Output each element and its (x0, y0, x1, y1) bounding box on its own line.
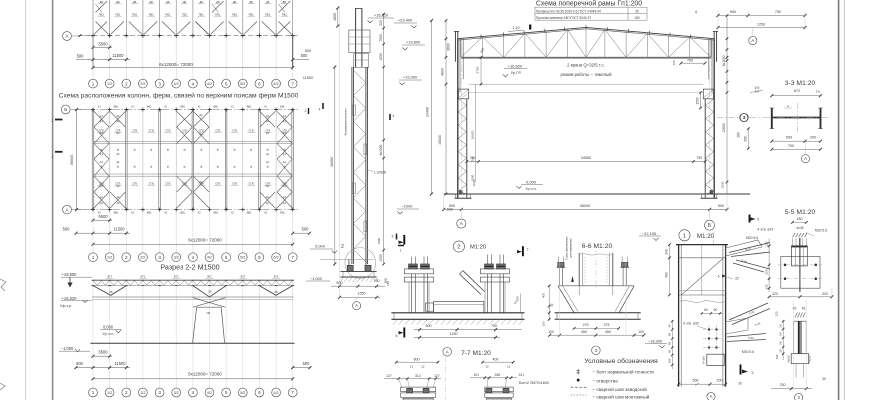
svg-text:220: 220 (764, 269, 768, 274)
fachwerk column upper shaft (356, 8, 362, 67)
svg-text:ДБ: ДБ (266, 0, 270, 4)
svg-text:К2: К2 (231, 212, 234, 215)
detail 6-6 base plate (555, 313, 641, 320)
truss top chord panel ticks (481, 25, 691, 38)
svg-text:500: 500 (305, 48, 312, 53)
detail 5-5 left dim chain 120 220 120 (764, 238, 770, 292)
svg-text:Ур.ч.п.: Ур.ч.п. (102, 332, 113, 336)
svg-text:ф: ф (200, 165, 203, 169)
fachwerk base anchor bolts (347, 259, 371, 271)
plan1 axis circle A (63, 32, 90, 41)
frame right column lattice (705, 99, 714, 198)
frame axis circle B bottom right (705, 209, 715, 230)
frame spec table (535, 7, 647, 20)
fachwerk left labels 500 and 11500 (303, 48, 314, 80)
svg-text:1000: 1000 (472, 179, 476, 186)
svg-text:60: 60 (704, 308, 708, 312)
svg-text:750: 750 (373, 279, 379, 283)
svg-text:Разрез 2-2 М1500: Разрез 2-2 М1500 (160, 263, 219, 272)
svg-text:М30 5.6: М30 5.6 (815, 228, 827, 232)
svg-text:−18,300: −18,300 (648, 338, 663, 343)
svg-text:1/2: 1/2 (107, 391, 112, 395)
svg-text:ф1: ф1 (283, 202, 287, 205)
frame dim 1000 left base (472, 179, 476, 186)
svg-text:− болт нормальной точности: − болт нормальной точности (592, 369, 654, 375)
svg-text:120: 120 (775, 311, 779, 316)
svg-text:ФВ1: ФВ1 (147, 212, 152, 215)
svg-text:ф1: ф1 (116, 153, 120, 156)
svg-text:ФТ2: ФТ2 (107, 276, 112, 279)
svg-text:ФВ1: ФВ1 (147, 106, 152, 109)
fachwerk base callout circle 2 (341, 244, 376, 278)
svg-text:ОБ: ОБ (274, 291, 278, 294)
svg-text:ФВ1: ФВ1 (213, 212, 218, 215)
svg-text:5: 5 (225, 255, 228, 260)
detail 3-3 axis circle A bottom (801, 141, 809, 163)
dim 280 right of frame (736, 132, 740, 138)
plan2 axis number circles row (89, 253, 298, 262)
svg-text:ф: ф (217, 165, 220, 169)
svg-text:1/2: 1/2 (107, 82, 112, 86)
svg-text:6: 6 (396, 334, 398, 338)
svg-text:ф: ф (100, 148, 103, 152)
svg-text:3: 3 (158, 255, 161, 260)
svg-text:СГВ: СГВ (215, 130, 220, 133)
detail 1 level -22.105 (639, 231, 661, 241)
svg-text:500: 500 (718, 204, 724, 208)
plan2 top axis K labels (98, 106, 286, 215)
svg-text:+15,000: +15,000 (403, 75, 418, 80)
ridge section flag (529, 25, 531, 30)
svg-text:δ=160: δ=160 (702, 356, 706, 364)
svg-text:24400: 24400 (425, 107, 429, 117)
plan1 axis number circles row (89, 79, 298, 88)
svg-text:12: 12 (421, 364, 425, 368)
svg-text:40: 40 (668, 350, 672, 354)
detail 2 section flag 6 bottom left (396, 327, 405, 338)
svg-text:ДБ: ДБ (216, 0, 220, 4)
svg-text:К1: К1 (231, 106, 234, 109)
svg-text:6: 6 (718, 275, 720, 279)
svg-text:ОБ: ОБ (208, 291, 212, 294)
detail 5-5 outer plate with bolts (778, 238, 823, 292)
svg-text:150: 150 (386, 281, 390, 286)
svg-text:100: 100 (638, 330, 644, 334)
section2 dimension 6x12000=72000 (92, 372, 295, 381)
svg-text:ф: ф (283, 148, 286, 152)
svg-text:750: 750 (470, 156, 476, 160)
svg-text:+16,620: +16,620 (374, 13, 389, 18)
roof slope mark 1:10 (508, 26, 524, 32)
frame crane level lines (469, 84, 704, 92)
svg-text:ДБ: ДБ (100, 0, 104, 4)
detail 3-3 dim 280 left (744, 127, 750, 149)
svg-text:2: 2 (125, 390, 128, 395)
detail 7-7 left plan dims 12 12 (410, 364, 425, 368)
detail 5-5 labels 180 4x45 M30 (791, 217, 827, 236)
svg-text:ПБ1: ПБ1 (199, 12, 205, 16)
svg-text:ПБ1: ПБ1 (99, 12, 105, 16)
svg-text:ДБ: ДБ (166, 0, 170, 4)
svg-text:СГВ: СГВ (132, 183, 137, 186)
plan1 dimension 6x12000=72000 (92, 53, 310, 69)
svg-text:4 отв. ø23: 4 отв. ø23 (758, 227, 774, 231)
frame axis circle A bottom left (457, 209, 466, 228)
frame column centerlines (461, 40, 709, 194)
plan2 cross marks at axis intersections (91, 108, 295, 212)
sheet border inner thin line right (843, 0, 845, 400)
detail 2 ground hatch under plate (393, 320, 523, 325)
detail 7-7 left plan dims 127 313 127 (384, 374, 441, 388)
svg-text:ОБ: ОБ (109, 291, 113, 294)
svg-text:7-7 М1:20: 7-7 М1:20 (461, 350, 491, 357)
fachwerk base floor line 0.000 (320, 258, 374, 260)
level mark +16,620 at column top (368, 13, 395, 24)
svg-text:7: 7 (291, 255, 294, 260)
detail 1 stiffener plate (702, 354, 725, 365)
svg-text:6х12000= 72000: 6х12000= 72000 (188, 238, 222, 243)
detail 7-7 right plan dims 101 168 101 (470, 373, 524, 388)
svg-text:+23,400: +23,400 (398, 18, 413, 23)
svg-text:4х100: 4х100 (787, 355, 791, 363)
frame eave cap left (454, 32, 459, 62)
svg-text:313: 313 (415, 374, 421, 378)
svg-text:3: 3 (595, 348, 598, 353)
detail 1 lower right braces (726, 303, 770, 354)
detail 5-5 inner plate (791, 246, 807, 266)
svg-text:м: м (787, 104, 789, 108)
svg-text:60: 60 (714, 308, 718, 312)
svg-text:90: 90 (778, 332, 782, 336)
detail 7-7 right plan dims 12 12 (485, 364, 510, 368)
svg-text:1%: 1% (755, 90, 760, 94)
section2 dimension 500 right (291, 361, 311, 369)
svg-text:200: 200 (810, 136, 816, 140)
section2 middle portal legs (193, 307, 225, 343)
fachwerk right dim chain 220 7500 1000 6x3000 1350 (379, 13, 385, 266)
svg-text:100: 100 (541, 321, 545, 326)
svg-text:ф1: ф1 (116, 161, 120, 164)
svg-text:11500: 11500 (112, 53, 124, 58)
svg-text:750: 750 (696, 156, 702, 160)
svg-text:А: А (751, 38, 754, 43)
svg-text:СГВ: СГВ (165, 183, 170, 186)
svg-text:1: 1 (92, 255, 95, 260)
svg-text:7: 7 (291, 390, 294, 395)
plan2 dimension 500 right (291, 227, 311, 235)
svg-text:22: 22 (735, 277, 739, 281)
svg-text:16620: 16620 (471, 130, 475, 139)
svg-text:5500: 5500 (98, 41, 108, 46)
svg-text:5/2: 5/2 (240, 82, 245, 86)
svg-text:СГВ: СГВ (215, 183, 220, 186)
svg-text:3/2: 3/2 (174, 82, 179, 86)
svg-text:ДБ: ДБ (149, 0, 153, 4)
svg-text:1:10: 1:10 (512, 26, 519, 30)
svg-text:ПБ1: ПБ1 (249, 12, 255, 16)
svg-text:450: 450 (605, 330, 611, 334)
svg-text:1350: 1350 (379, 254, 383, 262)
detail 3-3 dims 500 200 (770, 136, 822, 143)
svg-text:ПБ1: ПБ1 (165, 12, 171, 16)
svg-text:5/2: 5/2 (240, 391, 245, 395)
svg-text:ПБ1: ПБ1 (132, 12, 138, 16)
detail lower-right dim chain 20 90 90 20 (775, 320, 785, 360)
svg-text:2: 2 (125, 255, 128, 260)
svg-text:2: 2 (125, 81, 128, 86)
svg-text:700: 700 (687, 58, 693, 62)
level mark +23,400 (394, 18, 417, 29)
svg-text:ф: ф (117, 148, 120, 152)
svg-text:ф1: ф1 (283, 153, 287, 156)
svg-text:200: 200 (717, 379, 723, 383)
svg-text:ФТ2: ФТ2 (174, 276, 179, 279)
svg-text:34500: 34500 (581, 156, 592, 160)
detail 2 diagonal strut (460, 271, 485, 295)
svg-text:К1: К1 (198, 106, 201, 109)
svg-text:90: 90 (778, 341, 782, 345)
svg-text:3600: 3600 (446, 43, 450, 51)
svg-text:6/2: 6/2 (274, 256, 279, 260)
svg-text:К2: К2 (198, 212, 201, 215)
section2 level +19800 (61, 272, 92, 287)
fachwerk column lattice chords (352, 67, 368, 264)
detail 2 section flag 7 right (517, 246, 529, 256)
detail 2 bottom dim 1250 (414, 332, 501, 339)
svg-text:ф: ф (183, 165, 186, 169)
svg-text:5500: 5500 (98, 214, 108, 219)
svg-text:1: 1 (92, 390, 95, 395)
svg-text:1: 1 (683, 233, 686, 239)
detail 2 traverse channel (426, 301, 484, 312)
detail 3-3 axis circle 3 left (740, 113, 830, 121)
svg-text:3: 3 (798, 395, 801, 400)
svg-text:4800: 4800 (440, 68, 444, 76)
svg-text:ДБ: ДБ (116, 0, 120, 4)
level -1.000 at fachwerk base (306, 276, 330, 281)
svg-text:ф: ф (117, 165, 120, 169)
frame level 0.000 Ur.ch.p. (516, 179, 543, 191)
plan1 dimension 5500 (92, 41, 113, 48)
detail 3-3 dim 700 (770, 144, 822, 151)
svg-text:ПБ1: ПБ1 (182, 12, 188, 16)
svg-text:Профнастил НС35-1000-0.6 ГОСТ: Профнастил НС35-1000-0.6 ГОСТ 24045-94 (536, 9, 601, 13)
svg-text:ф1: ф1 (266, 202, 270, 205)
svg-text:1%: 1% (816, 90, 821, 94)
frame interior dim 1500 vertical (696, 91, 702, 109)
detail 1 weld labels 6 22 (718, 275, 739, 281)
svg-text:7: 7 (527, 248, 529, 252)
svg-text:ф1: ф1 (266, 196, 270, 199)
section2 lower chord lines (92, 297, 294, 300)
detail lower-right bottom dims 230 30 (771, 377, 826, 390)
svg-text:ф: ф (267, 165, 270, 169)
svg-text:ф: ф (217, 148, 220, 152)
svg-text:500: 500 (76, 361, 84, 366)
svg-text:6: 6 (396, 236, 398, 240)
svg-text:21: 21 (694, 10, 698, 14)
svg-text:ДБ: ДБ (283, 0, 287, 4)
section2 vertical bracing labels (106, 276, 281, 279)
plan1 dimension 500 and 11500 (76, 53, 130, 61)
detail 6-6 column shaft (579, 250, 613, 290)
svg-text:СГВ: СГВ (132, 130, 137, 133)
svg-text:СГВ: СГВ (232, 130, 237, 133)
svg-text:30: 30 (738, 382, 742, 386)
svg-text:6/2: 6/2 (274, 82, 279, 86)
svg-text:1500: 1500 (696, 97, 700, 104)
svg-text:ПБ1: ПБ1 (265, 12, 271, 16)
truss bottom chord (461, 57, 711, 58)
frame right column upper shaft (709, 39, 714, 198)
detail 1 left dim chain 160 40 90 90 40 (668, 320, 674, 369)
frame left column lattice (458, 99, 467, 198)
plan2 grid verticals (trusses on main axes) (92, 110, 293, 253)
svg-text:500: 500 (303, 361, 311, 366)
section2 roof top chord (92, 279, 294, 281)
detail 1 level -18.300 (645, 338, 667, 348)
svg-text:2/2: 2/2 (140, 256, 145, 260)
svg-text:1250: 1250 (357, 292, 365, 296)
svg-text:А: А (446, 349, 449, 354)
svg-text:90: 90 (668, 342, 672, 346)
svg-text:ДБ: ДБ (233, 0, 237, 4)
section circle 3 right of frame (717, 113, 748, 121)
svg-text:120: 120 (764, 284, 768, 289)
section2 level +16620 (60, 296, 92, 308)
svg-text:0,000: 0,000 (103, 324, 114, 329)
svg-text:16000: 16000 (438, 135, 442, 145)
detail 6-6 bottom dims 275 275 (573, 323, 620, 330)
detail 7-7 right plate stack (485, 387, 513, 400)
plan2 vertical dimension 36000 (69, 108, 78, 211)
svg-text:127: 127 (386, 374, 392, 378)
svg-text:101: 101 (474, 373, 480, 377)
detail 2 header circle and title (453, 241, 486, 252)
svg-text:А: А (710, 394, 713, 399)
svg-text:ф: ф (267, 148, 270, 152)
svg-text:для маркировки: для маркировки (570, 238, 573, 258)
svg-text:127: 127 (434, 374, 440, 378)
svg-text:4: 4 (192, 255, 195, 260)
svg-text:7: 7 (291, 81, 294, 86)
svg-text:1830: 1830 (720, 181, 724, 188)
svg-text:ф: ф (150, 148, 153, 152)
section2 witness verticals (93, 280, 293, 388)
section2 axis number circles row (89, 388, 298, 397)
svg-text:Ур.Г.Р.: Ур.Г.Р. (511, 71, 522, 75)
svg-text:36000: 36000 (69, 154, 74, 166)
svg-text:220: 220 (379, 20, 383, 26)
svg-text:460: 460 (665, 272, 669, 278)
detail lower-right dims 45 45 hatch (793, 307, 806, 318)
frame interior dim 700 near right column (672, 58, 707, 65)
svg-text:ПБ1: ПБ1 (115, 12, 121, 16)
svg-text:Б: Б (64, 107, 67, 112)
svg-text:Б: Б (708, 223, 712, 229)
svg-text:ФВ1: ФВ1 (114, 212, 119, 215)
svg-text:500: 500 (426, 324, 432, 328)
svg-text:4: 4 (192, 390, 195, 395)
svg-text:6х12000= 72000: 6х12000= 72000 (188, 372, 222, 377)
svg-text:3-3 М1:20: 3-3 М1:20 (785, 80, 816, 87)
detail lower-right nut block (787, 354, 812, 378)
svg-text:ф: ф (233, 165, 236, 169)
svg-text:Условные обозначения: Условные обозначения (584, 357, 658, 365)
frame left dim chain 3600 4800 16000 (438, 19, 450, 195)
svg-text:Торец фрезеровать: Торец фрезеровать (565, 236, 569, 260)
frame level +16620 Ur.G.R. (503, 63, 527, 77)
detail 2 left rotated dims 1500 150 (377, 237, 390, 286)
svg-text:630: 630 (479, 47, 485, 54)
fachwerk base dimension 1250 (338, 292, 380, 299)
svg-text:280: 280 (736, 132, 740, 138)
svg-text:− сварной шов заводской: − сварной шов заводской (592, 386, 647, 392)
svg-text:2 крана Q=32/5 т.с.: 2 крана Q=32/5 т.с. (567, 63, 605, 68)
svg-text:672: 672 (794, 89, 800, 93)
section mark 1 near base (398, 246, 404, 253)
fachwerk section marks 1 2 left (305, 108, 309, 114)
svg-text:4х45: 4х45 (796, 226, 803, 230)
svg-text:ф: ф (134, 148, 137, 152)
svg-text:36000: 36000 (580, 204, 591, 208)
svg-text:М30 5.6: М30 5.6 (746, 236, 758, 240)
section2 ground line (90, 342, 294, 344)
frame left outer dim 24400 (425, 19, 433, 196)
svg-text:700: 700 (788, 144, 794, 148)
svg-text:500: 500 (336, 281, 342, 285)
svg-text:500: 500 (449, 204, 455, 208)
plan1 top band diagonals (cut off) (96, 0, 291, 13)
detail 5-5 bottom dims 220 220 (768, 288, 834, 299)
svg-text:К2: К2 (165, 212, 168, 215)
detail 5-5 chamfer hatch (793, 233, 808, 237)
svg-text:5х1830: 5х1830 (722, 55, 726, 66)
truss top chord (458, 27, 714, 40)
plan2 axis circle B (61, 105, 88, 114)
svg-text:5-5 М1:20: 5-5 М1:20 (785, 209, 816, 216)
svg-text:275: 275 (583, 323, 589, 327)
svg-text:4: 4 (393, 114, 395, 118)
svg-text:ф1: ф1 (283, 161, 287, 164)
svg-text:К1: К1 (98, 106, 101, 109)
detail 2 bottom dims 500 750 (414, 324, 523, 331)
svg-text:− отверстие: − отверстие (592, 379, 618, 384)
svg-text:7500: 7500 (379, 34, 383, 42)
detail 1 column body (676, 245, 728, 387)
svg-text:К1: К1 (264, 106, 267, 109)
svg-text:ФВ1: ФВ1 (280, 212, 285, 215)
svg-text:160: 160 (668, 358, 672, 363)
svg-text:140: 140 (665, 249, 669, 255)
svg-text:500: 500 (302, 227, 310, 232)
svg-text:275: 275 (604, 323, 610, 327)
svg-text:ФТ2: ФТ2 (141, 276, 146, 279)
svg-text:−1,000: −1,000 (310, 276, 323, 281)
svg-text:ДБ: ДБ (183, 0, 187, 4)
svg-text:А: А (460, 221, 464, 227)
svg-text:ДБ: ДБ (133, 0, 137, 4)
sheet border inner thin line left (25, 0, 27, 400)
svg-text:6: 6 (258, 81, 261, 86)
level 0.000 at fachwerk base (310, 244, 337, 254)
detail 1 header circle and title (679, 230, 715, 241)
svg-text:101: 101 (519, 373, 525, 377)
svg-text:ОБ: ОБ (207, 311, 211, 315)
svg-text:6: 6 (258, 255, 261, 260)
svg-text:СГВ: СГВ (149, 183, 154, 186)
level mark +15,000 (399, 75, 422, 86)
